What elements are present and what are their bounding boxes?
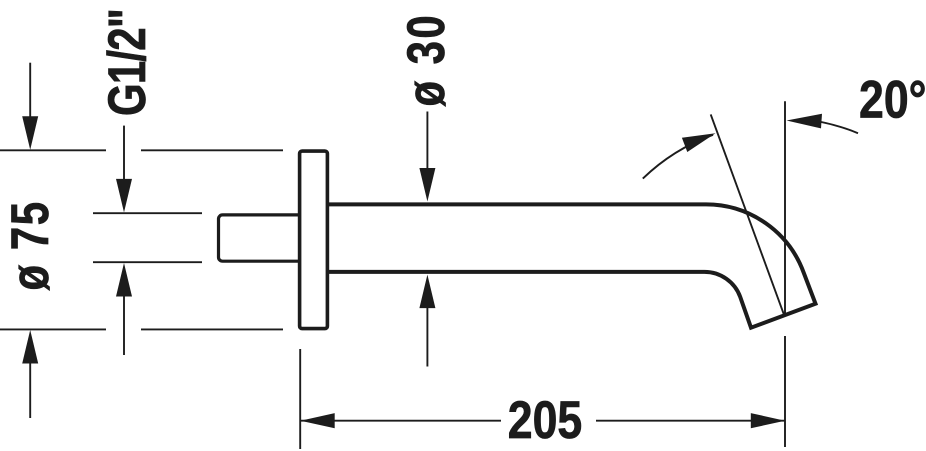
svg-text:G1/2": G1/2"	[99, 9, 158, 116]
svg-text:ø 75: ø 75	[2, 200, 61, 290]
svg-text:ø 30: ø 30	[398, 13, 457, 107]
svg-text:205: 205	[508, 392, 582, 450]
svg-text:20°: 20°	[859, 71, 926, 129]
